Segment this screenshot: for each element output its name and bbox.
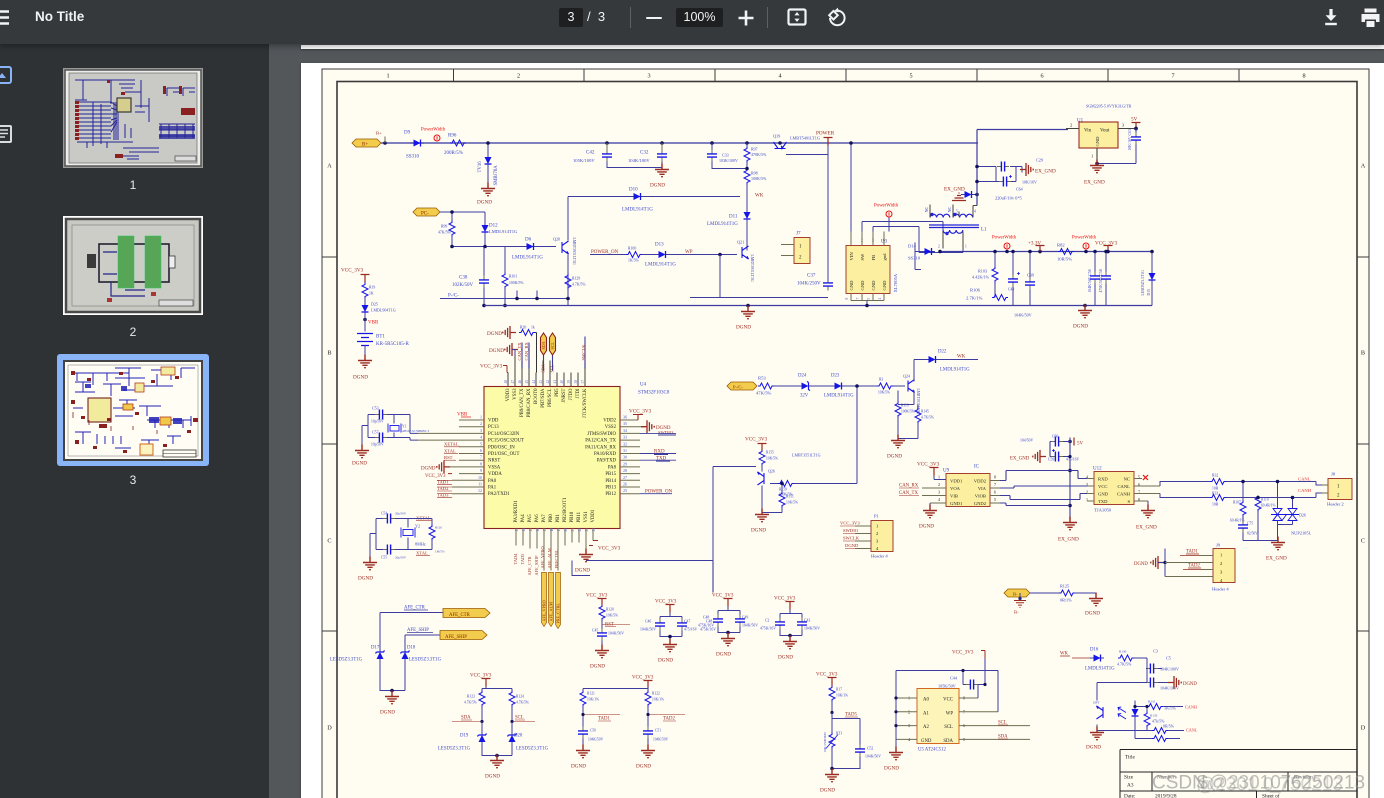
svg-text:XETAL: XETAL [444, 441, 459, 446]
IC U3 XL7005A [845, 231, 898, 300]
capacitor C49 [718, 614, 758, 636]
net label RST [602, 622, 630, 627]
svg-text:1: 1 [1091, 153, 1093, 158]
svg-text:VIA: VIA [978, 486, 987, 491]
svg-text:PB0: PB0 [549, 513, 554, 522]
net label XETAL [444, 441, 460, 446]
svg-text:R101: R101 [509, 274, 517, 278]
svg-text:10K/1%: 10K/1% [836, 693, 848, 697]
U4 top pin leads [508, 355, 585, 386]
net label SDA (pullup) [452, 715, 484, 723]
resistor R99 [438, 220, 455, 236]
svg-text:Header 2: Header 2 [1327, 501, 1344, 506]
svg-text:PowerWidth: PowerWidth [421, 127, 446, 132]
wire CANL/CANH [1160, 481, 1322, 497]
resistor R97 [744, 141, 767, 162]
wire 3.3V rail [940, 250, 1152, 252]
power port VCC_3V3 (battery) [341, 267, 370, 282]
svg-text:PB1: PB1 [556, 513, 561, 522]
net label VBB [363, 315, 379, 331]
svg-text:7: 7 [994, 482, 996, 487]
svg-text:L1: L1 [981, 227, 987, 232]
svg-text:R103: R103 [978, 268, 987, 273]
svg-text:PB5: PB5 [555, 387, 560, 396]
resistor R151 [762, 481, 798, 512]
resistor R98 [744, 162, 767, 196]
svg-text:LESD5Z3.3T1G: LESD5Z3.3T1G [330, 657, 363, 662]
svg-text:RT1: RT1 [836, 731, 842, 735]
svg-text:DGND: DGND [358, 575, 373, 581]
ground EX_GND (U12) [1136, 501, 1157, 531]
svg-text:KR-5R5C105-R: KR-5R5C105-R [376, 342, 409, 347]
resistor R145 [898, 404, 934, 438]
svg-text:AFE_SHIP: AFE_SHIP [445, 635, 467, 640]
svg-text:6: 6 [480, 448, 482, 453]
svg-text:AFE_CTR: AFE_CTR [527, 556, 532, 575]
wire U3 VIN [828, 143, 851, 284]
svg-text:R106: R106 [970, 287, 981, 292]
svg-text:ABS07-32.768KHZ-T: ABS07-32.768KHZ-T [402, 429, 429, 433]
bottom crystal caps C54 [381, 511, 407, 523]
svg-text:RXD: RXD [1098, 476, 1108, 481]
svg-text:D: D [327, 724, 332, 731]
side zone dividers [322, 257, 1369, 631]
svg-text:Title: Title [1125, 754, 1135, 760]
wire TAD12 top [583, 686, 648, 692]
svg-text:J7: J7 [796, 231, 801, 236]
svg-text:C2: C2 [765, 618, 770, 622]
cap label C48 (right) [700, 619, 716, 631]
svg-text:FB: FB [871, 254, 876, 260]
svg-text:EX_GND: EX_GND [1010, 456, 1030, 461]
diode D9 [404, 130, 424, 159]
svg-text:C45: C45 [592, 628, 598, 632]
resistor R53 [756, 375, 774, 395]
wire U9-U12 row5 [1000, 503, 1070, 506]
svg-text:IC: IC [974, 464, 980, 469]
svg-text:A2: A2 [923, 725, 929, 730]
zener D19 [438, 721, 487, 751]
resistor R17 [829, 685, 848, 712]
fit to page icon [787, 8, 807, 26]
diode D16 [1085, 647, 1115, 671]
svg-text:GND: GND [921, 738, 932, 743]
svg-text:BOOT0: BOOT0 [534, 387, 539, 403]
svg-text:TXD: TXD [1098, 499, 1108, 504]
svg-text:VCC_3V3: VCC_3V3 [629, 408, 652, 414]
ground DGND (Q26) [751, 508, 769, 533]
svg-text:47: 47 [511, 379, 515, 383]
power port VCC_3V3 (rail) [1095, 240, 1118, 253]
svg-text:PRECTRL: PRECTRL [554, 548, 559, 568]
svg-text:P-/C-: P-/C- [448, 293, 459, 298]
svg-text:2: 2 [517, 72, 520, 79]
capacitor C43 [780, 617, 820, 639]
svg-text:41: 41 [553, 379, 557, 383]
svg-text:XTAL: XTAL [444, 448, 456, 453]
svg-text:EX_GND: EX_GND [1084, 179, 1105, 185]
svg-text:SS310: SS310 [908, 255, 921, 260]
svg-text:10p/50V: 10p/50V [371, 419, 384, 423]
svg-text:PB10: PB10 [570, 511, 575, 522]
svg-text:3: 3 [938, 489, 940, 494]
svg-text:JTDO: JTDO [569, 387, 574, 399]
net label SWDIO [640, 430, 676, 435]
capacitor C5 [1146, 677, 1179, 690]
svg-text:D25: D25 [371, 301, 378, 306]
capacitor C2 [760, 609, 802, 630]
svg-text:VDD3: VDD3 [506, 387, 511, 400]
svg-text:PB12: PB12 [605, 492, 616, 497]
svg-text:VCC: VCC [943, 697, 953, 702]
svg-text:SDA: SDA [541, 364, 546, 372]
svg-text:LMDL914T1G: LMDL914T1G [622, 207, 653, 212]
svg-text:LMDL914T1G: LMDL914T1G [1085, 666, 1115, 671]
svg-text:DGND: DGND [590, 663, 605, 669]
svg-text:32: 32 [623, 441, 627, 446]
svg-text:U12: U12 [1093, 466, 1102, 471]
svg-text:4.7K/5%: 4.7K/5% [572, 282, 586, 286]
PowerWidth no-ERC marker [421, 127, 446, 141]
no-ERC X (U12 pin5) [1143, 475, 1148, 480]
capacitor C29 [997, 157, 1043, 171]
diode D14 [908, 242, 942, 260]
svg-text:60.4R/1%: 60.4R/1% [1261, 503, 1275, 507]
svg-text:5: 5 [994, 497, 996, 502]
svg-text:4.7K/5%: 4.7K/5% [516, 700, 529, 704]
svg-text:4.7K/5%: 4.7K/5% [921, 415, 934, 419]
svg-text:33: 33 [623, 434, 627, 439]
svg-text:D19: D19 [460, 733, 469, 738]
svg-text:10K/5%: 10K/5% [766, 456, 778, 460]
wire WK chain [774, 386, 905, 484]
diode D11 [707, 208, 751, 246]
svg-text:20p/50V: 20p/50V [395, 511, 407, 515]
bottom: net flag AFE_ALM vertical [549, 572, 554, 626]
transformer L1 [929, 213, 979, 234]
svg-text:VOA: VOA [950, 486, 961, 491]
svg-text:SCL: SCL [550, 341, 555, 349]
toolbar [0, 0, 1384, 44]
diode D12 [450, 221, 518, 248]
svg-text:R97: R97 [751, 146, 758, 151]
page 3 white sheet [301, 63, 1384, 798]
svg-text:8: 8 [480, 461, 482, 466]
svg-text:PA0: PA0 [488, 478, 497, 483]
svg-text:2: 2 [480, 421, 482, 426]
capacitor C75 [1238, 520, 1258, 540]
svg-text:475K/50V C58: 475K/50V C58 [1099, 269, 1103, 292]
svg-text:C50: C50 [590, 728, 596, 732]
svg-text:C29: C29 [1036, 157, 1043, 162]
capacitor C48 [698, 606, 740, 627]
svg-text:A: A [1361, 162, 1366, 169]
ground DGND (top 2) [489, 343, 518, 356]
svg-text:GND: GND [849, 279, 854, 290]
svg-text:VIOB: VIOB [975, 493, 986, 498]
svg-text:8: 8 [1302, 72, 1305, 79]
svg-text:35: 35 [623, 421, 627, 426]
wire overlays top pins [522, 336, 585, 370]
svg-text:R107: R107 [1233, 500, 1241, 504]
IC U1 regulator [1066, 118, 1136, 163]
svg-text:LMDL914T1G: LMDL914T1G [824, 393, 854, 398]
svg-text:104K/50V: 104K/50V [804, 626, 820, 630]
svg-text:SWCLK: SWCLK [581, 343, 586, 360]
svg-text:R124: R124 [516, 694, 524, 698]
power VCC_3V3 (RT1) [816, 672, 838, 685]
ground EX_GND (C29) [1020, 163, 1056, 176]
resistor R19 [362, 282, 375, 298]
junctions U5 [894, 668, 986, 726]
svg-text:C51: C51 [655, 728, 661, 732]
net flag PC- [413, 208, 440, 217]
svg-text:475/16V: 475/16V [1066, 457, 1080, 461]
svg-text:D24: D24 [798, 373, 807, 378]
net label WK (D16) [1060, 651, 1090, 658]
ground DGND (D17 D18) [380, 662, 405, 715]
svg-text:S: S [1127, 499, 1130, 504]
svg-text:104K/50V: 104K/50V [653, 737, 669, 741]
resistor R110 [1255, 495, 1275, 540]
svg-text:SWDIO: SWDIO [658, 430, 674, 435]
svg-text:PB7/SDA: PB7/SDA [541, 387, 546, 407]
outline rail icon (clipped) [0, 125, 12, 143]
svg-text:104K/100V: 104K/100V [628, 158, 650, 163]
svg-text:VSS2: VSS2 [605, 425, 617, 430]
svg-text:A: A [327, 162, 332, 169]
svg-text:WK: WK [957, 354, 966, 359]
ground DGND (U5) [884, 739, 903, 771]
svg-text:NC: NC [1124, 476, 1130, 481]
page number input [559, 8, 583, 27]
svg-text:6: 6 [1040, 72, 1043, 79]
ground DGND (battery) [353, 354, 372, 380]
svg-text:VIB: VIB [950, 493, 958, 498]
svg-text:LESD5Z3.3T1G: LESD5Z3.3T1G [438, 746, 471, 751]
svg-text:JTMS/SWDIO: JTMS/SWDIO [587, 431, 616, 436]
svg-text:AFE_SHIP: AFE_SHIP [534, 554, 539, 575]
svg-text:DGND: DGND [887, 453, 902, 459]
net label TAD2 (RC) [646, 712, 685, 721]
svg-text:475/16V: 475/16V [684, 627, 698, 631]
svg-text:32V: 32V [800, 393, 809, 398]
svg-text:NC: NC [947, 206, 952, 212]
svg-text:48: 48 [504, 379, 508, 383]
svg-text:SW: SW [860, 252, 865, 260]
net flag B+ [352, 139, 381, 148]
svg-text:27: 27 [623, 474, 627, 479]
svg-text:PA6: PA6 [535, 513, 540, 522]
svg-text:1M/5%: 1M/5% [435, 549, 445, 553]
svg-text:BT1: BT1 [376, 334, 385, 339]
power VCC_3V3 (C46 C47) [655, 599, 677, 612]
resistor R82 [1057, 242, 1074, 261]
svg-text:NRST: NRST [488, 458, 500, 463]
junction PC- [450, 210, 454, 214]
svg-text:5: 5 [956, 209, 958, 213]
capacitor C47 [660, 618, 698, 642]
header J7 [781, 231, 810, 263]
svg-text:C: C [327, 537, 331, 544]
svg-text:J8: J8 [1331, 471, 1336, 476]
svg-text:DGND: DGND [571, 763, 586, 769]
IC U4 STM32F103C8 body [484, 382, 670, 528]
diode D6 [512, 237, 543, 260]
U4 right pin numbers [623, 414, 627, 493]
svg-text:R159: R159 [779, 487, 787, 491]
svg-text:105K/50V: 105K/50V [938, 683, 956, 688]
ground DGND (VSS1) [575, 548, 593, 573]
svg-text:R120: R120 [606, 607, 614, 611]
svg-text:JTDI: JTDI [576, 388, 581, 398]
svg-text:R129: R129 [572, 276, 580, 280]
svg-text:DGND: DGND [845, 543, 859, 548]
power VCC_3V3 (C48 C49) [712, 593, 734, 606]
power VCC_3V3 (C2 C43) [774, 596, 796, 609]
resistor R32 [1210, 473, 1226, 490]
svg-text:D20: D20 [514, 733, 523, 738]
net label CAN_TX [899, 491, 919, 496]
svg-text:WP: WP [685, 250, 693, 255]
wire B- to R125 [1030, 592, 1096, 594]
svg-text:7: 7 [480, 454, 482, 459]
svg-text:50213: 50213 [1290, 774, 1343, 795]
resistor R100 [626, 246, 642, 262]
net label TAD1 (RC) [581, 712, 620, 721]
capacitor C39 [1014, 249, 1035, 317]
U4 right pin names [585, 418, 616, 497]
resistor R159 [770, 480, 857, 496]
svg-text:B-: B- [1014, 609, 1019, 614]
junction U3 VIN rail [849, 141, 853, 145]
diode D23 [824, 373, 854, 398]
cap labels C3 C5 [1153, 648, 1171, 660]
power VCC_3V3 (RST) [586, 593, 608, 606]
svg-text:PA3/RXD1: PA3/RXD1 [514, 499, 519, 522]
svg-text:475K/16V: 475K/16V [760, 626, 776, 630]
zener D18 [401, 645, 442, 662]
svg-text:100K/5%: 100K/5% [509, 281, 524, 285]
svg-text:104K/50V: 104K/50V [588, 737, 604, 741]
svg-text:PB2/BOOT1: PB2/BOOT1 [563, 496, 568, 522]
right: ground DGND (VSS2) [641, 420, 671, 433]
svg-text:C75: C75 [1247, 521, 1253, 525]
junction WP node [718, 252, 722, 256]
net label TXD [640, 456, 676, 461]
svg-text:C60: C60 [1052, 434, 1058, 438]
svg-text:10K/16V C63: 10K/16V C63 [1128, 129, 1132, 150]
svg-text:GND1: GND1 [950, 501, 963, 506]
svg-text:10R: 10R [1212, 502, 1219, 506]
svg-text:SGM2205-5.0VYK3LG/TR: SGM2205-5.0VYK3LG/TR [1086, 103, 1132, 108]
svg-text:475K/16V: 475K/16V [700, 627, 716, 631]
resistor R134 CANL [1147, 723, 1184, 733]
svg-text:B+: B+ [362, 142, 368, 147]
capacitor C56 [1088, 249, 1100, 305]
svg-text:R130: R130 [1119, 649, 1127, 653]
svg-text:104K/100V: 104K/100V [1160, 666, 1179, 671]
svg-text:R125: R125 [1060, 583, 1069, 588]
net label SCL (pullup) [510, 715, 535, 723]
svg-text:3: 3 [647, 72, 650, 79]
wire U3 gnd to rail [866, 300, 868, 305]
svg-text:Q19: Q19 [773, 133, 780, 138]
svg-text:R151: R151 [786, 494, 794, 498]
svg-text:C38: C38 [459, 275, 468, 280]
U4 right pin leads [620, 420, 645, 494]
svg-text:VSS3: VSS3 [513, 387, 518, 399]
svg-text:31: 31 [623, 448, 627, 453]
capacitor C52 [832, 718, 881, 768]
svg-text:DGND: DGND [884, 765, 899, 771]
svg-text:PA12/CAN_TX: PA12/CAN_TX [585, 438, 616, 443]
svg-text:PB6/SCL: PB6/SCL [548, 388, 553, 406]
svg-text:C64: C64 [1016, 186, 1023, 191]
svg-text:C49: C49 [742, 615, 748, 619]
svg-text:2019/9/28: 2019/9/28 [1155, 793, 1177, 798]
zone letters [327, 162, 1366, 731]
svg-text:4: 4 [878, 297, 882, 299]
svg-text:D22: D22 [938, 349, 947, 354]
wire U9-U12 row8 [1000, 470, 1087, 480]
capacitor C46 [640, 612, 682, 631]
PowerWidth marker (VCC) [1072, 235, 1097, 253]
svg-text:JTCK/SWCLK: JTCK/SWCLK [583, 387, 588, 417]
ground DGND (WK chain) [887, 434, 905, 459]
svg-text:C43: C43 [804, 618, 810, 622]
svg-text:1K: 1K [369, 291, 374, 295]
svg-text:PB15: PB15 [605, 472, 616, 477]
svg-text:12: 12 [478, 488, 482, 493]
ground DGND (C2 C43) [778, 635, 797, 660]
ground DGND (J9) sideways [1134, 548, 1167, 576]
U4 bottom pin leads [516, 528, 593, 570]
ground DGND (opto) [1086, 726, 1147, 750]
resistor R131 CANH [1133, 699, 1183, 710]
svg-text:38: 38 [574, 379, 578, 383]
svg-text:Date:: Date: [1124, 793, 1136, 798]
svg-text:NC: NC [924, 206, 929, 212]
svg-text:PowerWidth: PowerWidth [992, 235, 1017, 240]
junction WK chain [855, 384, 859, 388]
resistor R101 [502, 246, 524, 305]
power VCC_3V3 (VDD1) [589, 540, 621, 551]
svg-text:4: 4 [938, 497, 940, 502]
svg-text:DGND: DGND [1086, 744, 1101, 750]
ground DGND (C50) [571, 744, 590, 769]
svg-text:CANL: CANL [1298, 476, 1311, 481]
wire WP down [690, 254, 828, 297]
svg-text:D11: D11 [729, 214, 738, 219]
resistor R129 [565, 273, 586, 289]
wire Q26 to AFE [713, 466, 756, 560]
svg-text:R17: R17 [836, 687, 842, 691]
transistor Q24 [903, 373, 920, 414]
svg-text:SS310: SS310 [406, 154, 420, 159]
svg-text:VDD2: VDD2 [974, 478, 987, 483]
capacitor C44 [938, 675, 978, 689]
svg-text:PA4: PA4 [521, 513, 526, 522]
svg-text:7: 7 [856, 297, 860, 299]
resistor R124 [509, 690, 529, 720]
svg-text:C3: C3 [1153, 648, 1158, 653]
capacitor C59 [1048, 449, 1080, 462]
svg-text:10R/5%: 10R/5% [1057, 256, 1072, 261]
svg-text:LESD5Z3.3T1G: LESD5Z3.3T1G [1141, 269, 1145, 295]
svg-text:D16: D16 [1090, 647, 1099, 652]
svg-text:VCC: VCC [1098, 484, 1107, 489]
